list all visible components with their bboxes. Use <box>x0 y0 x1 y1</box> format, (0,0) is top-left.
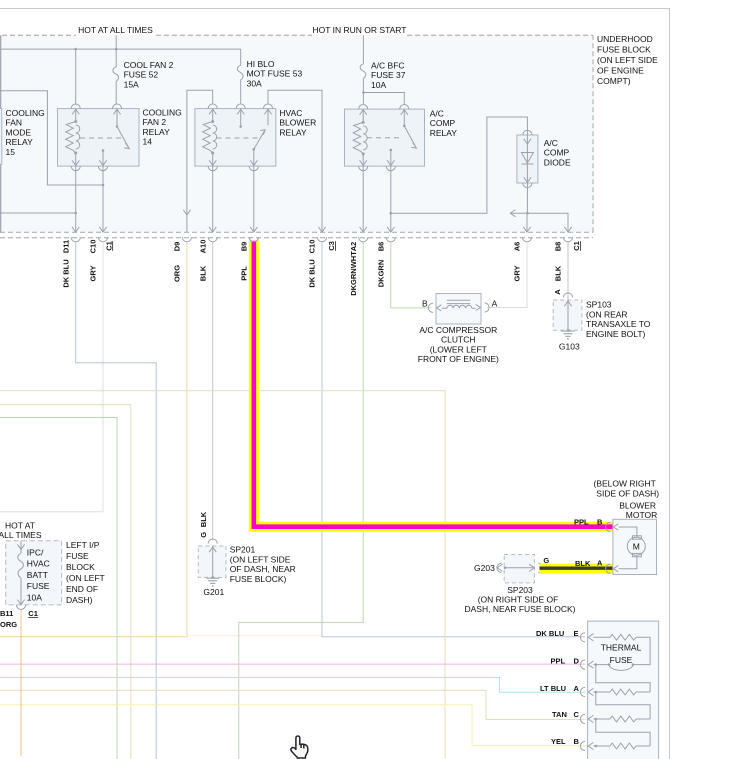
motor brushes <box>632 536 641 539</box>
svg-text:A: A <box>574 684 580 693</box>
fuse IPC/HVAC BATT FUSE 10A <box>20 541 22 554</box>
wire DK BLU from D11 jog down <box>76 242 157 759</box>
svg-text:C3: C3 <box>327 241 336 251</box>
relay CF2 switch <box>116 125 119 128</box>
svg-text:OF ENGINE: OF ENGINE <box>597 66 644 76</box>
svg-text:FUSE: FUSE <box>66 551 89 561</box>
component BLOWER MOTOR box <box>613 519 657 574</box>
svg-text:RELAY: RELAY <box>6 137 34 147</box>
svg-text:ENGINE BOLT): ENGINE BOLT) <box>586 329 646 339</box>
diode element <box>526 135 528 183</box>
svg-text:COOLING: COOLING <box>6 108 45 118</box>
fuse HI BLO MOT FUSE 53 30A <box>240 49 242 65</box>
fuse COOL FAN 2 FUSE 52 15A <box>115 49 117 67</box>
svg-text:(ON RIGHT SIDE OF: (ON RIGHT SIDE OF <box>478 595 559 605</box>
relay HVAC internal dashed link <box>217 137 260 139</box>
wire A/C coil output to A2 <box>362 166 364 232</box>
svg-text:ALL TIMES: ALL TIMES <box>0 530 42 540</box>
wire ORG from D9 down then left <box>0 242 187 637</box>
wire GRY from C10 to left edge <box>0 242 103 512</box>
svg-text:DASH, NEAR FUSE BLOCK): DASH, NEAR FUSE BLOCK) <box>465 604 576 614</box>
clutch terminal A arc arrow <box>485 303 490 312</box>
svg-text:(LOWER LEFT: (LOWER LEFT <box>430 344 487 354</box>
left I/P fuse block dashed box <box>6 541 62 605</box>
wire pale continuation right of ORG corner <box>187 635 322 637</box>
splice SP201 arc <box>208 539 217 544</box>
wire hot-at-all-times bus <box>0 48 241 50</box>
thermal fuse row E resistor <box>593 636 610 638</box>
svg-text:FAN 2: FAN 2 <box>143 117 167 127</box>
blower internal wiring <box>619 527 637 537</box>
wire DK BLU from C10 to thermal fuse E <box>322 242 585 637</box>
mouse cursor <box>291 736 308 758</box>
wire lt blu to thermal fuse A <box>0 678 585 693</box>
underhood fuse block dashed border right <box>592 35 594 232</box>
splice SP203 right arc <box>538 563 543 572</box>
svg-text:MOT FUSE 53: MOT FUSE 53 <box>247 69 303 79</box>
clutch terminal B arc arrow <box>428 303 433 312</box>
wire HVAC relay common feed from C10 <box>268 90 322 232</box>
svg-text:SP201: SP201 <box>230 545 256 555</box>
relay A/C switch blade <box>403 125 406 128</box>
svg-text:C1: C1 <box>104 241 113 251</box>
splice SP103 arc <box>563 293 572 298</box>
svg-text:SIDE OF DASH): SIDE OF DASH) <box>596 488 659 498</box>
svg-text:10A: 10A <box>371 80 386 90</box>
splice SP103 dashed box <box>553 300 582 330</box>
svg-text:(ON LEFT SIDE: (ON LEFT SIDE <box>230 554 291 564</box>
wire fuse37 to A/C relay pins <box>363 93 404 105</box>
svg-text:DKGRN: DKGRN <box>377 260 386 288</box>
svg-text:A/C: A/C <box>430 109 444 119</box>
svg-text:THERMAL: THERMAL <box>601 643 642 653</box>
relay CF2 internal dashed link <box>80 137 125 139</box>
svg-text:HI BLO: HI BLO <box>247 59 275 69</box>
wire PPL B9 highlighted magenta core <box>254 241 613 527</box>
svg-text:10A: 10A <box>27 592 42 602</box>
motor M circle <box>627 537 645 555</box>
svg-text:PPL: PPL <box>551 657 566 666</box>
svg-text:15A: 15A <box>124 79 139 89</box>
wire yel to thermal fuse B <box>0 705 585 746</box>
wire CF2 coil output to D11 <box>75 166 77 232</box>
svg-text:RELAY: RELAY <box>430 128 458 138</box>
wire diode top link <box>391 117 528 213</box>
svg-text:(ON LEFT: (ON LEFT <box>66 573 105 583</box>
svg-text:FUSE: FUSE <box>27 581 50 591</box>
svg-text:C: C <box>574 710 580 719</box>
blower terminal B arc arrow <box>606 522 611 531</box>
connector dashed line <box>0 237 593 239</box>
svg-text:SP203: SP203 <box>507 585 533 595</box>
svg-text:COMPT): COMPT) <box>597 76 631 86</box>
svg-text:DK BLU: DK BLU <box>61 259 70 287</box>
connector bump B9 over highlight <box>249 237 258 242</box>
svg-text:HOT IN RUN OR START: HOT IN RUN OR START <box>313 25 407 35</box>
splice SP203 left arrow arc <box>497 564 502 571</box>
svg-text:B: B <box>597 518 603 527</box>
svg-text:BLK: BLK <box>198 265 207 281</box>
svg-text:C10: C10 <box>308 240 317 254</box>
thermal fuse row D wire <box>593 664 609 666</box>
svg-text:E: E <box>574 629 579 638</box>
svg-text:15: 15 <box>6 147 16 157</box>
wire BLK G highlighted yellow band <box>540 564 614 574</box>
svg-text:LT BLU: LT BLU <box>540 684 566 693</box>
splice SP203 dashed box <box>504 555 534 583</box>
svg-text:FAN: FAN <box>6 118 23 128</box>
wire internal bus to D11 <box>0 212 76 214</box>
wire tan to thermal fuse C <box>0 690 585 719</box>
wire BLK from A10 down to SP201 <box>212 242 214 541</box>
svg-text:FUSE 37: FUSE 37 <box>371 70 406 80</box>
component A/C COMPRESSOR CLUTCH box <box>436 294 481 325</box>
svg-text:HOT AT ALL TIMES: HOT AT ALL TIMES <box>78 25 153 35</box>
fuse A/C BFC FUSE 37 10A <box>362 35 364 64</box>
component THERMAL FUSE box <box>588 621 659 759</box>
relay HVAC switch pole to B9 <box>253 149 255 166</box>
relay A/C COMP RELAY box <box>345 109 425 166</box>
svg-text:HOT AT: HOT AT <box>5 521 35 531</box>
connector pass-through bumps <box>71 237 80 242</box>
clutch coil <box>447 305 472 308</box>
svg-text:A: A <box>492 299 498 309</box>
svg-text:ORG: ORG <box>173 265 182 282</box>
svg-text:TRANSAXLE TO: TRANSAXLE TO <box>586 319 651 329</box>
svg-text:G103: G103 <box>559 342 580 352</box>
svg-text:FUSE: FUSE <box>610 655 633 665</box>
svg-text:M: M <box>633 542 640 552</box>
connector B11 bump <box>16 605 25 610</box>
svg-text:C10: C10 <box>89 240 98 254</box>
relay CF2 coil <box>66 120 80 155</box>
svg-text:TAN: TAN <box>552 710 567 719</box>
svg-text:GRY: GRY <box>513 266 522 282</box>
diode A/C COMP DIODE box <box>517 135 538 183</box>
svg-text:UNDERHOOD: UNDERHOOD <box>597 34 653 44</box>
underhood fuse block background <box>0 35 593 232</box>
relay HVAC BLOWER RELAY box <box>195 109 276 167</box>
page right border <box>669 9 671 759</box>
svg-text:B9: B9 <box>240 242 249 252</box>
svg-text:COMP: COMP <box>430 118 456 128</box>
wire BLK from B8 to SP103 <box>567 242 569 300</box>
wire green corner mid <box>0 418 117 759</box>
svg-text:YEL: YEL <box>551 737 566 746</box>
relay A/C coil <box>353 121 367 155</box>
svg-text:BLK: BLK <box>575 559 591 568</box>
svg-text:C1: C1 <box>572 241 581 251</box>
svg-text:D11: D11 <box>61 240 70 253</box>
svg-text:A6: A6 <box>513 242 522 252</box>
wire diode bottom to ground bus <box>526 183 528 213</box>
svg-text:G: G <box>543 556 549 565</box>
ground G103 symbol <box>562 331 575 339</box>
svg-text:BLK: BLK <box>554 265 563 281</box>
wire tan corner mid <box>0 405 131 759</box>
svg-text:30A: 30A <box>247 78 262 88</box>
ground G201 symbol <box>206 578 219 586</box>
svg-text:FUSE BLOCK: FUSE BLOCK <box>597 45 651 55</box>
svg-text:D9: D9 <box>173 242 182 252</box>
svg-text:A: A <box>597 559 603 568</box>
relay COOLING FAN 2 RELAY 14 box <box>58 109 140 167</box>
svg-text:HVAC: HVAC <box>279 108 302 118</box>
splice SP201 dashed box <box>198 546 226 577</box>
relay HVAC mid pin stub <box>239 125 242 128</box>
svg-text:A: A <box>553 289 562 295</box>
underhood fuse block dashed border bottom <box>0 231 593 233</box>
wire left feed to C10 junction <box>0 91 103 185</box>
underhood fuse block left edge <box>0 35 2 232</box>
svg-text:RELAY: RELAY <box>279 127 307 137</box>
wire HVAC relay coil feed from D9 <box>187 90 213 232</box>
svg-text:B: B <box>422 299 428 309</box>
svg-text:B8: B8 <box>554 242 563 252</box>
splice SP201 wire <box>212 546 214 577</box>
svg-text:(ON LEFT SIDE: (ON LEFT SIDE <box>597 55 658 65</box>
wire DK GRN/WHT from A2 down-left <box>239 242 363 759</box>
svg-text:END OF: END OF <box>66 584 98 594</box>
wire BLK G highlighted black core <box>540 567 614 570</box>
wire orange from B11 down <box>20 610 22 756</box>
page top border <box>0 8 670 10</box>
node D11 bus junction <box>74 212 77 215</box>
svg-text:FRONT OF ENGINE): FRONT OF ENGINE) <box>418 354 499 364</box>
wire pink PPL to thermal fuse D <box>0 663 585 665</box>
svg-text:LEFT I/P: LEFT I/P <box>66 540 100 550</box>
thermal fuse A to C link <box>596 692 650 719</box>
svg-text:FUSE BLOCK): FUSE BLOCK) <box>230 574 287 584</box>
svg-text:G201: G201 <box>203 587 224 597</box>
relay CF2 pin arcs and arrows bottom <box>75 153 77 166</box>
svg-text:B6: B6 <box>377 242 386 252</box>
svg-text:DIODE: DIODE <box>544 157 571 167</box>
thermal fuse D to A link <box>596 665 650 692</box>
thermal fuse terminal arcs arrows <box>580 633 585 642</box>
thermal fuse row B resistor <box>593 745 610 747</box>
svg-text:HVAC: HVAC <box>27 559 50 569</box>
svg-text:MOTOR: MOTOR <box>626 510 657 520</box>
svg-text:BLK: BLK <box>199 511 208 527</box>
svg-text:COOL FAN 2: COOL FAN 2 <box>124 60 174 70</box>
svg-text:DK BLU: DK BLU <box>308 259 317 287</box>
relay HVAC coil <box>203 120 217 155</box>
svg-text:B: B <box>574 737 580 746</box>
svg-text:DKGRNWHT: DKGRNWHT <box>349 251 358 296</box>
svg-text:GRY: GRY <box>89 266 98 282</box>
splice SP103 wire <box>567 300 569 330</box>
wire A/C switch output to B6 <box>390 166 392 232</box>
svg-text:FUSE 52: FUSE 52 <box>124 70 159 80</box>
relay CF2 pin arcs and arrows top <box>71 104 80 109</box>
svg-text:OF DASH, NEAR: OF DASH, NEAR <box>230 564 296 574</box>
svg-text:ORG: ORG <box>0 620 17 629</box>
svg-text:BLOCK: BLOCK <box>66 562 95 572</box>
relay HVAC switch blade <box>253 148 256 151</box>
relay A/C pin arcs arrows top <box>359 105 368 110</box>
svg-text:B11: B11 <box>0 609 13 618</box>
svg-text:CLUTCH: CLUTCH <box>441 335 475 345</box>
svg-text:BLOWER: BLOWER <box>279 118 316 128</box>
svg-text:MODE: MODE <box>6 127 32 137</box>
wire internal ground bus A6-B8 <box>510 213 568 232</box>
svg-text:G: G <box>199 532 208 538</box>
wire PPL B9 highlighted yellow band <box>254 241 613 527</box>
svg-text:D: D <box>574 657 580 666</box>
wire tan horizontal upper <box>0 391 445 759</box>
svg-text:A2: A2 <box>349 242 358 252</box>
relay A/C internal dashed link <box>367 137 400 139</box>
wire HVAC switch output to B9 <box>253 166 255 232</box>
svg-text:IPC/: IPC/ <box>27 548 44 558</box>
wire CF2 switch output to C10 <box>102 166 104 232</box>
svg-text:COMP: COMP <box>544 148 570 158</box>
svg-text:PPL: PPL <box>240 266 249 281</box>
svg-text:A/C COMPRESSOR: A/C COMPRESSOR <box>419 325 497 335</box>
relay A/C switch pole <box>390 149 393 152</box>
svg-text:RELAY: RELAY <box>143 127 171 137</box>
wire coil feed cooling fan 2 relay <box>75 49 77 104</box>
wire DK GRN from B6 to clutch <box>391 242 431 308</box>
blower terminal A arc arrow <box>606 564 611 573</box>
wire GRY from A6 to clutch <box>487 242 527 308</box>
clutch plates <box>447 299 471 301</box>
svg-text:A10: A10 <box>198 240 207 254</box>
svg-text:DK BLU: DK BLU <box>536 629 564 638</box>
svg-text:A/C BFC: A/C BFC <box>371 60 405 70</box>
underhood fuse block dashed border top <box>2 34 76 36</box>
splice SP203 wire <box>504 567 507 570</box>
svg-text:(ON REAR: (ON REAR <box>586 309 628 319</box>
svg-text:COOLING: COOLING <box>143 108 182 118</box>
svg-text:BLOWER: BLOWER <box>619 500 656 510</box>
thermal fuse element arc <box>609 665 633 671</box>
thermal fuse row C resistor <box>593 718 610 720</box>
wire HVAC coil output to A10 <box>212 166 214 232</box>
relay HVAC pin arcs arrows top <box>208 104 217 109</box>
thermal fuse row A resistor <box>593 691 610 693</box>
wire A6 down <box>526 213 528 232</box>
svg-text:14: 14 <box>143 137 153 147</box>
svg-text:A/C: A/C <box>544 138 558 148</box>
svg-text:DASH): DASH) <box>66 595 93 605</box>
svg-text:BATT: BATT <box>27 570 48 580</box>
svg-text:SP103: SP103 <box>586 300 612 310</box>
thermal fuse C to B link <box>596 719 650 746</box>
svg-text:PPL: PPL <box>574 518 589 527</box>
svg-text:C1: C1 <box>28 609 38 618</box>
svg-text:G203: G203 <box>474 563 495 573</box>
node bus junction dots <box>74 48 77 51</box>
relay COOLING FAN MODE RELAY 15 (cut off at left) <box>0 109 2 165</box>
svg-text:(BELOW RIGHT: (BELOW RIGHT <box>594 479 656 489</box>
